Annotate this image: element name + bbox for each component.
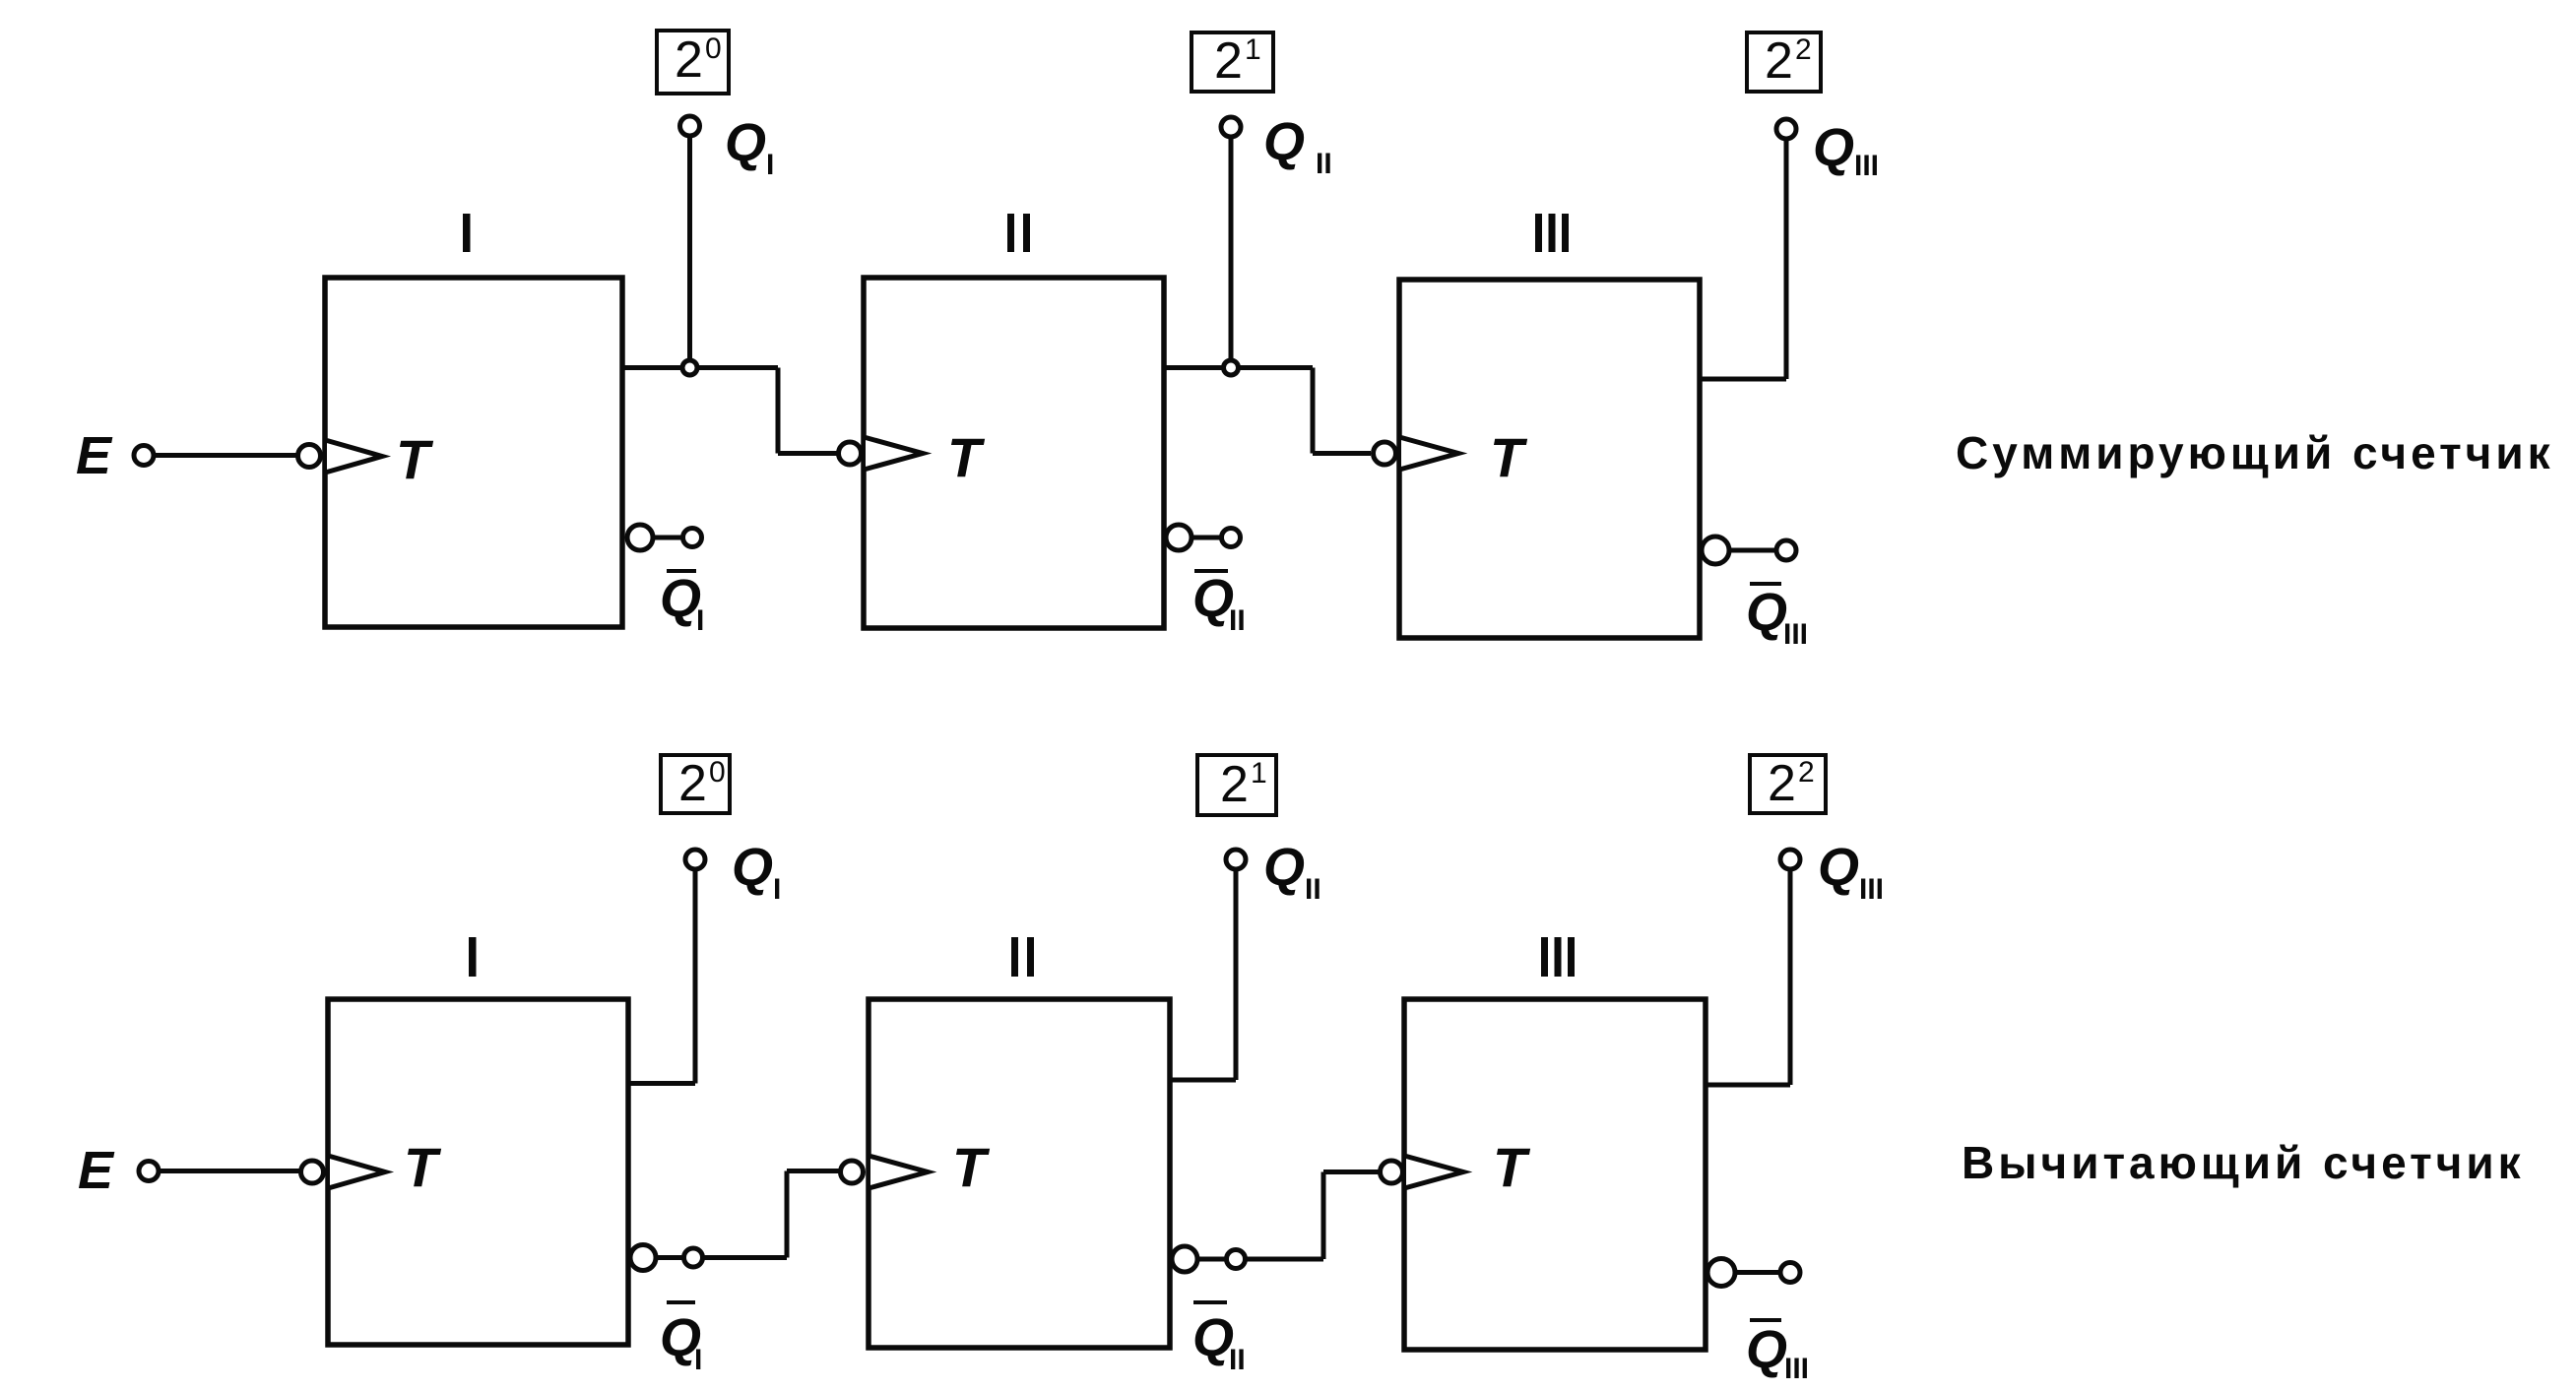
node label Qbar_III (top) <box>1750 582 1781 586</box>
wire bubble to terminal Qbar_I (bottom) <box>656 1255 683 1260</box>
wire Q_II up to terminal (bottom) <box>1234 871 1239 1080</box>
wire Qbar_I to corner (bottom I-II) <box>703 1255 787 1260</box>
flip-flop U3 box III (top) <box>1399 280 1700 638</box>
svg-text:T: T <box>952 1136 991 1198</box>
svg-text:E: E <box>76 426 113 485</box>
svg-text:I: I <box>766 149 774 181</box>
flip-flop U5 box II (bottom) <box>869 999 1170 1348</box>
svg-text:II: II <box>1305 873 1321 906</box>
svg-text:Q: Q <box>660 569 701 628</box>
junction node Q_II (top) <box>1224 360 1239 375</box>
dynamic input arrow of III (bottom) <box>1406 1157 1463 1188</box>
wire into T input of II (top) <box>778 451 838 456</box>
terminal E (bottom) <box>139 1162 159 1181</box>
svg-text:T: T <box>404 1136 442 1198</box>
label II above box (bottom) <box>1011 937 1018 977</box>
svg-text:1: 1 <box>1245 33 1261 66</box>
node label Qbar_II (top) <box>1194 569 1228 573</box>
svg-text:2: 2 <box>1765 32 1793 90</box>
wire into T input of III (top) <box>1313 451 1371 456</box>
svg-text:I: I <box>773 873 781 906</box>
wire bubble to terminal Qbar_II (top) <box>1191 536 1221 540</box>
svg-text:2: 2 <box>1798 756 1815 789</box>
svg-text:I: I <box>696 604 704 637</box>
wire bubble to terminal Qbar_III (top) <box>1729 548 1776 553</box>
wire bubble to terminal Qbar_II (bottom) <box>1197 1257 1226 1262</box>
wire into T input of II (bottom) <box>787 1169 839 1173</box>
flip-flop U1 box I (top) <box>325 278 622 627</box>
svg-text:Q: Q <box>1192 569 1234 628</box>
wire Q_III up to terminal (top) <box>1784 141 1789 379</box>
terminal Qbar_II (bottom) <box>1227 1250 1246 1269</box>
wire Q_I stub from box I (top) <box>622 365 681 370</box>
wire vertical rise (bottom II-III) <box>1321 1172 1326 1260</box>
dynamic input arrow of I (top) <box>327 441 382 473</box>
wire Q_II stub from box II (top) <box>1164 365 1223 370</box>
svg-text:III: III <box>1783 618 1808 651</box>
flip-flop U2 box II (top) <box>864 278 1164 628</box>
wire into T input of III (bottom) <box>1323 1170 1379 1174</box>
label I above box (top) <box>463 214 471 252</box>
wire Q_I up to terminal (top) <box>687 138 692 360</box>
node label Qbar_II (bottom) <box>1193 1300 1227 1304</box>
node label Qbar_I (top) <box>667 569 696 573</box>
svg-text:T: T <box>1490 426 1528 488</box>
weight box 2^1 (top) <box>1191 32 1273 92</box>
svg-text:Q: Q <box>1746 583 1787 642</box>
svg-text:2: 2 <box>678 755 707 812</box>
svg-text:2: 2 <box>1214 32 1243 90</box>
svg-text:II: II <box>1229 1344 1246 1376</box>
svg-text:Q: Q <box>725 113 766 172</box>
terminal Q_II (bottom) <box>1226 850 1246 869</box>
wire Qbar_II to corner (bottom II-III) <box>1246 1257 1323 1262</box>
terminal Qbar_III (top) <box>1776 540 1796 560</box>
svg-text:Вычитающий счетчик: Вычитающий счетчик <box>1962 1137 2525 1188</box>
input circle of flip-flop II (top) <box>839 442 862 465</box>
wire bubble to terminal Qbar_III (bottom) <box>1735 1270 1780 1275</box>
wire vertical drop (top II-III) <box>1311 368 1316 454</box>
svg-text:1: 1 <box>1251 757 1267 790</box>
input circle of flip-flop I (top) <box>298 445 321 468</box>
input circle of flip-flop II (bottom) <box>841 1161 864 1183</box>
weight box 2^0 (bottom) <box>661 755 730 813</box>
wire vertical rise (bottom I-II) <box>785 1171 790 1258</box>
dynamic input arrow of II (bottom) <box>870 1157 928 1188</box>
terminal Q_I (bottom) <box>685 850 705 869</box>
weight box 2^2 (top) <box>1747 32 1821 92</box>
svg-text:2: 2 <box>675 32 703 89</box>
dynamic input arrow of III (top) <box>1401 438 1458 470</box>
wire Q_I stub from box I (bottom) <box>628 1081 695 1086</box>
svg-text:0: 0 <box>709 756 726 789</box>
inversion bubble Qbar_II (top) <box>1166 525 1191 550</box>
svg-text:III: III <box>1854 150 1879 182</box>
node label Qbar_I (bottom) <box>667 1300 695 1304</box>
flip-flop U4 box I (bottom) <box>328 999 628 1345</box>
svg-text:Q: Q <box>1813 118 1854 177</box>
weight box 2^1 (bottom) <box>1197 755 1276 815</box>
label I above box (bottom) <box>469 937 477 977</box>
terminal Qbar_I (top) <box>683 529 702 547</box>
weight box 2^0 (top) <box>657 31 729 94</box>
svg-text:Q: Q <box>1818 838 1859 897</box>
wire vertical drop (top I-II) <box>776 368 781 454</box>
svg-text:III: III <box>1859 873 1884 906</box>
input circle of flip-flop III (top) <box>1374 442 1396 465</box>
terminal Qbar_II (top) <box>1222 529 1241 547</box>
wire Q_III up to terminal (bottom) <box>1788 871 1793 1085</box>
terminal Q_I (top) <box>680 116 700 136</box>
svg-text:Q: Q <box>732 838 773 897</box>
terminal E (top) <box>134 446 154 466</box>
svg-text:T: T <box>396 428 434 490</box>
wire E to T input of I (bottom) <box>161 1169 299 1173</box>
wire Q_I up to terminal (bottom) <box>693 871 698 1084</box>
inversion bubble Qbar_I (bottom) <box>630 1245 656 1271</box>
flip-flop U6 box III (bottom) <box>1404 999 1706 1350</box>
terminal Q_III (bottom) <box>1780 850 1800 869</box>
svg-text:Q: Q <box>1192 1308 1234 1367</box>
dynamic input arrow of I (bottom) <box>330 1157 385 1188</box>
label III above box (bottom) <box>1541 937 1548 977</box>
svg-text:III: III <box>1784 1353 1809 1385</box>
wire Q_II up to terminal (top) <box>1229 139 1234 360</box>
inversion bubble Qbar_III (bottom) <box>1707 1259 1735 1287</box>
dynamic input arrow of II (top) <box>866 438 923 470</box>
svg-text:2: 2 <box>1220 756 1249 813</box>
svg-text:I: I <box>694 1344 702 1376</box>
wire E to T input of I (top) <box>156 453 296 458</box>
terminal Qbar_I (bottom) <box>684 1248 703 1267</box>
label II above box (top) <box>1007 214 1014 252</box>
node label Qbar_III (bottom) <box>1750 1318 1781 1322</box>
junction node Q_I (top) <box>682 360 697 375</box>
svg-text:T: T <box>947 426 986 488</box>
svg-text:II: II <box>1316 148 1332 180</box>
inversion bubble Qbar_II (bottom) <box>1172 1246 1197 1272</box>
terminal Q_III (top) <box>1776 119 1796 139</box>
wire Q_II stub from box II (bottom) <box>1170 1078 1236 1083</box>
input circle of flip-flop III (bottom) <box>1381 1161 1403 1183</box>
weight box 2^2 (bottom) <box>1750 755 1826 813</box>
wire bubble to terminal Qbar_I (top) <box>653 536 682 540</box>
svg-text:Q: Q <box>1746 1320 1787 1379</box>
input circle of flip-flop I (bottom) <box>301 1161 324 1183</box>
svg-text:Q: Q <box>1263 838 1305 897</box>
wire Q_III stub from box III (top) <box>1700 377 1786 382</box>
terminal Q_II (top) <box>1221 117 1241 137</box>
svg-text:II: II <box>1229 604 1246 637</box>
svg-text:2: 2 <box>1795 33 1812 66</box>
inversion bubble Qbar_I (top) <box>627 525 653 550</box>
wire Q_III stub from box III (bottom) <box>1706 1083 1790 1088</box>
svg-text:E: E <box>78 1141 115 1200</box>
wire junction to corner (top I-II) <box>697 365 778 370</box>
wire junction to corner (top II-III) <box>1239 365 1313 370</box>
inversion bubble Qbar_III (top) <box>1702 537 1729 564</box>
svg-text:2: 2 <box>1768 755 1796 812</box>
terminal Qbar_III (bottom) <box>1780 1263 1800 1283</box>
svg-text:Суммирующий счетчик: Суммирующий счетчик <box>1956 427 2554 478</box>
svg-text:T: T <box>1493 1136 1531 1198</box>
svg-text:0: 0 <box>705 32 722 65</box>
label III above box (top) <box>1535 214 1542 252</box>
svg-text:Q: Q <box>1263 112 1305 171</box>
